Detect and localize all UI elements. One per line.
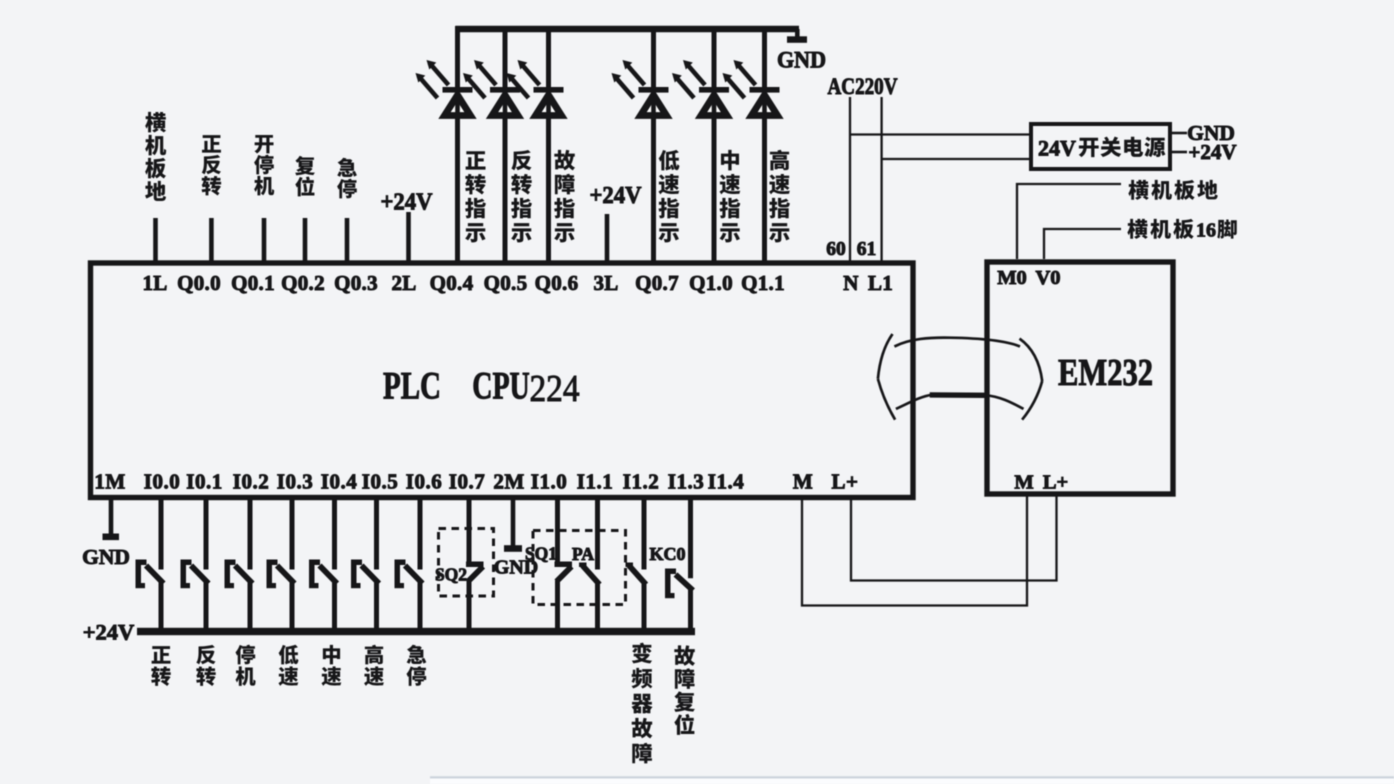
switch I0.3 低速 [267,500,295,632]
label 故障指示 [554,150,575,242]
svg-text:EM232: EM232 [1058,352,1153,394]
wire N feed [849,97,851,261]
LED light emission arrows [723,60,756,98]
svg-text:SQ1: SQ1 [525,543,557,563]
label 急停 [407,645,427,686]
label 中速 [322,645,342,686]
svg-text:M: M [793,470,813,494]
cable double arrow PLC-EM232 [878,334,1042,420]
label 开停机 [254,135,274,195]
switch I0.6 急停 [395,500,423,632]
label 复位 [295,156,315,196]
svg-text:I1.1: I1.1 [577,470,613,494]
svg-text:I0.4: I0.4 [321,470,357,494]
LED light emission arrows [672,60,705,98]
switch I1.3 KC0 故障复位 [665,500,693,632]
svg-text:+24V: +24V [83,620,135,645]
wire 急停 to PLC [345,218,350,262]
label 故障复位 [674,645,695,734]
svg-text:I0.5: I0.5 [362,470,398,494]
LED 高速指示 indicator [750,87,780,116]
wire N to 24V supply [850,133,1031,135]
svg-text:GND: GND [82,545,130,569]
svg-text:61: 61 [857,239,877,260]
svg-text:+24V: +24V [590,182,642,209]
PLC main unit box [91,263,914,498]
wire 高速指示 output [762,26,767,262]
svg-text:I1.4: I1.4 [708,470,744,494]
svg-text:KC0: KC0 [650,544,686,564]
wire 2L stub [406,212,411,262]
label 低速指示 [659,150,680,243]
svg-text:I1.0: I1.0 [531,470,567,494]
switch I1.0 SQ1 [555,500,573,632]
LED light emission arrows [463,60,496,98]
svg-text:PLC: PLC [383,365,441,408]
svg-text:60: 60 [826,239,846,260]
svg-text:L+: L+ [1043,471,1068,493]
svg-text:Q1.1: Q1.1 [741,271,785,295]
label 高速 [364,645,384,686]
switch I1.2 变频器故障 [626,500,647,632]
svg-text:1M: 1M [94,470,125,494]
wire L1 feed [880,97,882,261]
svg-text:2L: 2L [391,271,416,295]
svg-text:I0.2: I0.2 [233,470,269,494]
wire 横机板地 to PLC [153,218,158,262]
ground 2M stub [504,500,522,552]
wire 3L stub [605,214,610,262]
LED 正转指示 indicator [443,87,473,116]
wire 故障指示 output [546,26,551,262]
label 正反转 [202,135,221,195]
label 横机板16脚 [1127,219,1193,239]
svg-text:M0: M0 [997,267,1027,289]
wire PLC L+ to EM232 L+ [851,494,1057,581]
svg-text:Q0.3: Q0.3 [334,271,378,295]
svg-text:V0: V0 [1035,267,1060,289]
EM232 module box [987,262,1173,494]
24V switching power supply box [1031,124,1170,169]
svg-text:Q0.7: Q0.7 [635,271,679,295]
wire PLC M to EM232 M [802,494,1027,606]
svg-text:SQ2: SQ2 [435,564,467,584]
switch I0.1 反转 [181,500,209,632]
switch I0.4 中速 [309,500,337,632]
label 横机板地 [1128,180,1217,200]
label 低速 [279,645,299,686]
svg-text:I1.2: I1.2 [623,470,659,494]
svg-text:AC220V: AC220V [828,74,898,99]
svg-text:224: 224 [530,368,580,410]
label 正转 [151,646,170,686]
switch I1.1 PA [579,500,600,632]
svg-text:Q0.2: Q0.2 [281,271,325,295]
LED 低速指示 indicator [639,87,669,116]
svg-text:16: 16 [1196,220,1216,242]
svg-text:I0.0: I0.0 [144,470,180,494]
switch I0.7 SQ2 [466,500,484,632]
label 停机 [236,645,256,686]
label 反转 [196,645,215,686]
svg-text:Q1.0: Q1.0 [689,271,733,295]
wire GND output stub [1172,132,1187,135]
LED 故障指示 indicator [534,87,564,116]
dashed box SQ2 [439,529,494,597]
svg-text:PA: PA [572,544,594,564]
PLC bottom terminal row labels [94,470,858,494]
wire 正反转 to PLC [209,218,214,262]
svg-text:Q0.0: Q0.0 [177,271,221,295]
svg-text:I0.6: I0.6 [406,470,442,494]
wire +24V input bus [137,628,695,635]
LED light emission arrows [612,60,645,98]
wire L1 to 24V supply [882,158,1031,160]
svg-text:N: N [843,271,858,295]
dashed box SQ1/PA [533,531,626,605]
wire LED common rail [456,26,800,33]
wire M0 to 横机板地 [1017,184,1121,259]
PLC top terminal row labels [142,271,893,295]
wire 反转指示 output [503,26,508,262]
wire 复位 to PLC [303,218,308,262]
wire 开停机 to PLC [262,218,267,262]
switch I0.5 高速 [351,500,379,632]
wire +24V output stub [1172,151,1187,154]
wire 中速指示 output [712,26,717,262]
LED light emission arrows [416,60,449,98]
svg-text:I0.1: I0.1 [186,470,222,494]
switch I0.2 停机 [225,500,253,632]
switch I0.0 正转 [136,500,164,632]
divider line bottom [430,778,1394,784]
LED 反转指示 indicator [490,87,520,116]
label 反转指示 [511,150,532,242]
svg-text:2M: 2M [493,470,524,494]
svg-text:Q0.1: Q0.1 [231,271,275,295]
wire V0 to 横机板16脚 [1044,229,1121,259]
ground GND rail terminal [787,29,807,43]
svg-text:+24V: +24V [1188,140,1236,164]
svg-text:M: M [1014,471,1033,493]
LED light emission arrows [507,60,540,98]
svg-text:GND: GND [777,47,826,72]
label 中速指示 [720,150,741,242]
label 变频器故障 [631,643,652,764]
svg-text:I0.3: I0.3 [277,470,313,494]
LED 中速指示 indicator [699,87,729,116]
svg-text:1L: 1L [142,271,167,295]
ground 1M stub [103,500,120,540]
cable lower line thick middle [930,392,987,398]
label 高速指示 [769,150,790,243]
label 正转指示 [465,151,486,242]
wire 正转指示 output [455,26,460,262]
svg-text:I1.3: I1.3 [668,470,704,494]
svg-text:CPU: CPU [472,365,530,408]
label 急停 [337,158,357,199]
svg-text:L1: L1 [868,271,893,295]
wire 低速指示 output [651,26,656,262]
svg-text:Q0.4: Q0.4 [430,271,474,295]
svg-text:24V: 24V [1038,135,1076,160]
svg-text:Q0.5: Q0.5 [484,271,528,295]
svg-text:3L: 3L [593,271,618,295]
svg-text:+24V: +24V [381,188,433,215]
label 横机板地 [145,112,166,201]
svg-text:Q0.6: Q0.6 [535,271,579,295]
svg-text:L+: L+ [832,470,859,494]
svg-text:I0.7: I0.7 [449,470,485,494]
